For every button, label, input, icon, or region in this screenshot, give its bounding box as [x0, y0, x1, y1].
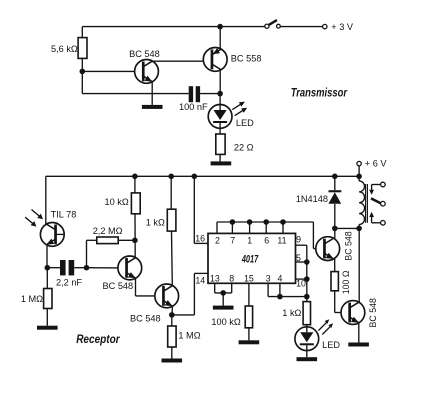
- svg-text:Receptor: Receptor: [76, 334, 120, 346]
- node: diode bottom / Q5 collector: [332, 226, 338, 232]
- LED D2 (receiver): [295, 319, 333, 357]
- wire: pins 3,4 to 1k/LED: [268, 283, 307, 296]
- svg-text:11: 11: [277, 235, 286, 245]
- svg-text:15: 15: [244, 273, 254, 283]
- terminal +6V: [357, 161, 361, 176]
- svg-text:BC 548: BC 548: [344, 231, 354, 260]
- phototransistor TIL 78: [25, 176, 64, 267]
- wire: node down to capacitor line: [82, 71, 188, 93]
- transistor Q3 BC548 (amp 1): [87, 256, 156, 296]
- svg-text:BC 548: BC 548: [368, 298, 378, 327]
- resistor 1 kOhm (amp load): [167, 176, 176, 286]
- ground (22 Ohm): [211, 161, 232, 165]
- ground (LED receiver): [297, 357, 318, 361]
- svg-text:LED: LED: [322, 340, 340, 350]
- transistor Q1 BC548 (transmitter): [82, 60, 203, 105]
- node: Q2 collector / LED junction: [217, 91, 223, 97]
- node: top bus dots: [230, 219, 286, 225]
- wire: pin 14 connection: [172, 273, 208, 315]
- ground (Q1 emitter): [142, 105, 163, 109]
- svg-text:100 kΩ: 100 kΩ: [211, 317, 240, 327]
- resistor 1 kOhm (LED): [303, 302, 310, 327]
- svg-text:1: 1: [247, 235, 252, 245]
- relay K1 contacts: [369, 182, 385, 225]
- node: 9/5/10/34 dots: [304, 259, 310, 299]
- wire: +3V top rail: [82, 27, 266, 38]
- wire: pins 13,8 to ground: [215, 283, 232, 305]
- node: BC558 emitter junction on +3V rail: [217, 24, 223, 30]
- svg-text:7: 7: [230, 235, 235, 245]
- svg-text:10 kΩ: 10 kΩ: [105, 197, 129, 207]
- resistor 100 kOhm: [245, 283, 252, 340]
- IC U1 4017: [208, 233, 296, 283]
- node: 13/8 junction: [220, 290, 226, 296]
- terminal +3V: [323, 24, 327, 28]
- svg-text:TIL 78: TIL 78: [51, 209, 77, 219]
- node: TIL78 emitter junction: [45, 265, 51, 271]
- node: rail dots: [132, 174, 362, 180]
- pin labels bottom row: [210, 273, 282, 283]
- diode 1N4148: [328, 176, 341, 228]
- svg-text:BC 548: BC 548: [129, 49, 160, 59]
- svg-text:4: 4: [277, 273, 282, 283]
- node: cap / 2,2M junction: [84, 265, 90, 271]
- capacitor 100 nF: [189, 86, 220, 102]
- svg-text:1 kΩ: 1 kΩ: [282, 308, 301, 318]
- svg-text:BC 548: BC 548: [130, 314, 161, 324]
- wire: diode to coil bottom: [335, 227, 359, 229]
- ground (1 MOhm emitter): [162, 359, 183, 363]
- relay K1 coil: [359, 176, 367, 228]
- switch S1: [265, 20, 323, 28]
- svg-text:1 MΩ: 1 MΩ: [178, 331, 200, 341]
- ground (Q6 emitter): [348, 343, 369, 347]
- ground (100 kOhm): [239, 340, 260, 344]
- svg-text:8: 8: [229, 273, 234, 283]
- node: pin 4 junction: [277, 294, 283, 300]
- svg-text:3: 3: [266, 273, 271, 283]
- resistor 1 MOhm (emitter): [168, 315, 176, 359]
- svg-text:14: 14: [195, 275, 205, 285]
- svg-text:2,2 nF: 2,2 nF: [56, 278, 82, 288]
- svg-text:5: 5: [296, 253, 301, 263]
- svg-text:+ 6 V: + 6 V: [365, 158, 388, 168]
- wire: +6V rail (receiver): [46, 175, 359, 177]
- pin labels sides: [195, 233, 306, 288]
- svg-text:1 MΩ: 1 MΩ: [21, 294, 43, 304]
- LED D1 (transmitter): [208, 94, 247, 129]
- svg-text:1N4148: 1N4148: [296, 194, 328, 204]
- svg-text:1 kΩ: 1 kΩ: [146, 218, 165, 228]
- resistor 1 MOhm (input): [44, 268, 52, 326]
- transistor Q6 BC548 (driver 2): [341, 228, 365, 342]
- svg-text:Transmissor: Transmissor: [291, 88, 348, 100]
- svg-text:13: 13: [210, 273, 220, 283]
- resistor 5,6 kOhm: [78, 38, 87, 72]
- node: 2,2M / collector junction: [132, 238, 138, 244]
- svg-text:5,6 kΩ: 5,6 kΩ: [51, 44, 78, 54]
- svg-text:9: 9: [296, 235, 301, 245]
- svg-text:BC 548: BC 548: [103, 281, 134, 291]
- svg-text:16: 16: [195, 233, 205, 243]
- resistor 100 Ohm: [331, 272, 341, 313]
- node: coil bottom / Q6 collector: [356, 226, 362, 232]
- svg-text:LED: LED: [236, 118, 254, 128]
- transistor Q5 BC548 (driver 1): [313, 228, 339, 271]
- wire: pins 9,5,10 column: [296, 245, 307, 301]
- svg-text:22 Ω: 22 Ω: [234, 143, 254, 153]
- node: base junction: [80, 69, 86, 75]
- pin labels top row: [215, 235, 287, 245]
- capacitor 2,2 nF: [47, 260, 86, 275]
- svg-text:BC 558: BC 558: [231, 54, 262, 64]
- resistor 2,2 MOhm: [87, 237, 135, 268]
- ground (1 MOhm input): [37, 326, 58, 330]
- svg-text:100 Ω: 100 Ω: [341, 270, 351, 294]
- svg-text:2,2 MΩ: 2,2 MΩ: [93, 226, 123, 236]
- svg-text:6: 6: [264, 235, 269, 245]
- transistor Q4 BC548 (amp 2): [155, 284, 179, 315]
- node: Q4 emitter / 1M / pin14 junction: [169, 312, 175, 318]
- wire: pin 16 connection: [194, 176, 208, 243]
- ground (pins 13,8): [213, 306, 234, 310]
- svg-text:100 nF: 100 nF: [179, 102, 208, 112]
- svg-text:4017: 4017: [241, 253, 259, 265]
- resistor 10 kOhm: [131, 176, 140, 257]
- svg-text:2: 2: [215, 235, 220, 245]
- resistor 22 Ohm: [216, 128, 225, 161]
- svg-text:+ 3 V: + 3 V: [331, 22, 354, 32]
- wire: IC top pins bus to Q5 base: [217, 222, 313, 249]
- transistor Q2 BC558: [203, 27, 227, 94]
